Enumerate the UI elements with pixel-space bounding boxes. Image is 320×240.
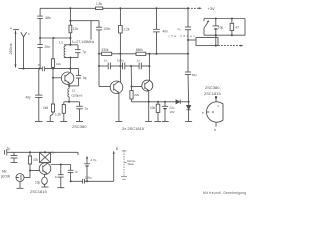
switch S1 — [204, 19, 209, 36]
node — [22, 68, 24, 70]
node — [155, 53, 157, 55]
svg-text:20n: 20n — [45, 45, 51, 49]
capacitor C10 1n — [137, 59, 142, 70]
resistor R7 680k — [136, 48, 146, 55]
node — [86, 180, 88, 182]
svg-text:5p: 5p — [83, 76, 87, 80]
svg-text:60n: 60n — [192, 73, 197, 77]
diode D1 series — [176, 100, 189, 104]
column 188 — [187, 8, 189, 27]
ground — [17, 187, 24, 189]
wire mic ground — [19, 182, 21, 189]
node — [215, 34, 217, 36]
svg-text:68n: 68n — [46, 16, 52, 20]
microphone M1 — [1, 170, 24, 182]
resistor R11 47 — [230, 19, 239, 36]
svg-text:15: 15 — [38, 63, 42, 67]
wire — [38, 98, 40, 122]
wire — [187, 75, 190, 102]
svg-text:10µ: 10µ — [35, 181, 41, 185]
capacitor C16 1u — [7, 147, 18, 163]
wire Q3 emitter — [148, 91, 150, 122]
capacitor C7 100n (osc supply) — [96, 21, 111, 32]
svg-text:1n: 1n — [104, 59, 108, 63]
wire — [146, 53, 188, 55]
capacitor 15p series — [38, 63, 45, 71]
node — [52, 68, 54, 70]
node — [44, 151, 46, 153]
resistor R8 2,2k — [119, 8, 130, 82]
capacitor C12 Ta — [169, 27, 195, 38]
capacitor C18 1n to ground — [55, 165, 64, 188]
node — [148, 101, 150, 103]
wire dashed output — [218, 45, 244, 47]
wire Q1 base — [53, 77, 62, 79]
wire to point B — [113, 147, 118, 182]
capacitor C15 10u — [213, 19, 224, 36]
wire lower — [38, 69, 40, 96]
resistor R2 12k (col53 upper) — [51, 38, 61, 67]
node — [68, 101, 70, 103]
svg-text:100n: 100n — [103, 27, 110, 31]
svg-text:Mit freundl. Genehmigung: Mit freundl. Genehmigung — [203, 191, 246, 195]
node — [70, 180, 72, 182]
wire — [112, 53, 136, 55]
svg-text:40n: 40n — [163, 29, 169, 33]
wire output row — [71, 180, 83, 182]
node — [69, 7, 71, 9]
wire mid row y38 — [40, 37, 70, 39]
transistor Q2 2SC1815 — [110, 81, 123, 94]
resistor R12 47k — [28, 152, 38, 177]
diode D2 shunt — [186, 102, 190, 122]
row 54 — [99, 53, 102, 55]
resistor R4 12k (oscillator feed) — [69, 8, 78, 33]
svg-text:c: c — [218, 104, 220, 108]
svg-text:680k: 680k — [136, 48, 143, 52]
capacitor C14 40n — [153, 8, 168, 54]
node — [119, 7, 121, 9]
node — [187, 7, 189, 9]
svg-text:L1: L1 — [59, 41, 63, 45]
wire emitter row — [64, 101, 80, 103]
svg-text:2SC380: 2SC380 — [72, 124, 87, 129]
svg-text:330k: 330k — [102, 48, 109, 52]
wire Q2 base — [99, 86, 110, 88]
ground — [42, 186, 49, 188]
capacitor C20 series — [83, 175, 92, 183]
svg-text:L2: L2 — [72, 89, 76, 93]
capacitor C4 7p tank — [75, 45, 86, 58]
svg-text:Taste: Taste — [127, 162, 134, 166]
mic rail — [9, 151, 78, 153]
node — [164, 101, 166, 103]
wire — [110, 65, 122, 67]
ground — [154, 121, 161, 123]
svg-text:22k: 22k — [134, 93, 139, 97]
stub — [90, 21, 92, 40]
svg-text:2SC1815: 2SC1815 — [30, 189, 47, 194]
ground — [76, 121, 83, 123]
svg-text:1n: 1n — [55, 175, 59, 179]
wire — [39, 19, 41, 45]
capacitor C3 40p — [26, 95, 43, 99]
wire — [125, 65, 139, 67]
svg-text:b: b — [28, 32, 30, 36]
wire antenna row — [19, 68, 43, 70]
node — [39, 37, 41, 39]
node — [148, 65, 150, 67]
wire Q2 emitter — [118, 93, 120, 122]
wire hook — [50, 112, 53, 122]
wire — [52, 67, 54, 104]
svg-text:C₂: C₂ — [178, 27, 182, 31]
wire — [84, 180, 113, 182]
node — [29, 169, 31, 171]
transistor Q4 2SC1815 — [39, 163, 51, 175]
svg-text:+3V: +3V — [208, 6, 216, 11]
wire column 99 — [98, 30, 100, 87]
svg-text:4,7µ: 4,7µ — [91, 158, 97, 162]
node — [231, 17, 233, 19]
left column — [39, 8, 41, 16]
capacitor C2 20n — [37, 45, 50, 49]
node — [38, 68, 40, 70]
earphone — [188, 35, 218, 46]
battery right side — [244, 19, 246, 36]
node — [119, 65, 121, 67]
node — [187, 39, 189, 41]
node — [52, 77, 54, 79]
node — [60, 163, 62, 165]
node — [53, 37, 55, 39]
node — [130, 65, 132, 67]
svg-text:fₒ=27,145MHz: fₒ=27,145MHz — [72, 40, 94, 44]
svg-text:1,5k: 1,5k — [96, 2, 102, 6]
wire — [187, 30, 189, 72]
ground — [47, 121, 54, 123]
capacitor C1 68n — [37, 16, 51, 20]
wire emitter — [68, 84, 70, 89]
node — [148, 53, 150, 55]
transistor pinout 2SC380 / 2SC1815 — [202, 85, 223, 132]
wire Q4 base — [30, 170, 40, 172]
ground — [57, 187, 64, 189]
top supply rail right part — [103, 7, 188, 9]
svg-text:1,2k: 1,2k — [55, 112, 61, 116]
capacitor C19 1u coupling — [68, 165, 78, 182]
row 66 — [99, 65, 108, 67]
transistor Q1 2SC380 — [61, 72, 73, 84]
resistor R3 1k5 (col53 lower) — [43, 104, 55, 112]
node — [98, 65, 100, 67]
node — [29, 151, 31, 153]
svg-text:22µ: 22µ — [169, 105, 174, 109]
battery stub — [5, 149, 10, 156]
svg-text:2SC380,: 2SC380, — [205, 85, 221, 90]
resistor R10 10k — [150, 102, 160, 122]
svg-text:(ECM): (ECM) — [1, 175, 10, 179]
ground — [162, 121, 169, 123]
svg-text:12k: 12k — [73, 27, 79, 31]
battery rail top — [204, 18, 245, 20]
inductor L2 choke — [68, 89, 83, 102]
svg-text:a: a — [10, 26, 12, 30]
inductor L1 — [59, 41, 78, 58]
node — [69, 37, 71, 39]
capacitor C5 5p feedback — [69, 69, 87, 86]
capacitor C6 7n — [76, 102, 88, 122]
node — [157, 101, 159, 103]
capacitor C11 22u electrolytic — [162, 102, 175, 122]
wire — [141, 65, 149, 67]
svg-text:7n: 7n — [85, 107, 89, 111]
electrolytic C17 10u — [35, 174, 47, 187]
node — [231, 34, 233, 36]
wire collector row — [51, 164, 71, 166]
svg-text:1µ: 1µ — [7, 147, 11, 151]
node — [188, 101, 190, 103]
antenna b — [21, 32, 31, 69]
node emitter — [68, 85, 70, 87]
ground — [145, 121, 152, 123]
svg-text:2x 2SC1815: 2x 2SC1815 — [122, 126, 145, 131]
svg-text:100µ: 100µ — [85, 175, 92, 179]
node — [119, 53, 121, 55]
resistor R1 1,5k series on rail — [96, 2, 103, 9]
trimmer T1 — [40, 151, 55, 163]
svg-text:b: b — [214, 128, 216, 132]
resistor R6 330k — [102, 48, 112, 55]
svg-text:47: 47 — [235, 26, 239, 30]
wire — [45, 68, 71, 70]
node — [69, 20, 71, 22]
dimension arrow 260cm — [9, 31, 17, 68]
wire Q3 base — [132, 86, 143, 88]
svg-text:e: e — [202, 111, 204, 115]
+3V arrow — [188, 6, 215, 11]
wire collector column — [69, 58, 71, 73]
ground — [185, 121, 192, 123]
wire — [69, 33, 71, 45]
capacitor C9 100n — [117, 59, 125, 70]
node — [215, 17, 217, 19]
svg-text:1µ: 1µ — [74, 169, 78, 173]
node tank top — [69, 44, 71, 46]
resistor R5 1,2k — [55, 102, 65, 122]
svg-text:10V: 10V — [169, 110, 174, 114]
wire detector row — [132, 101, 176, 103]
svg-text:(Ta 100µ): (Ta 100µ) — [169, 34, 195, 38]
electrolytic C21 with +3V arrow — [84, 156, 96, 182]
ground — [35, 121, 43, 123]
ground — [60, 121, 67, 123]
svg-text:47k: 47k — [33, 158, 39, 162]
svg-text:1n: 1n — [137, 59, 141, 63]
svg-text:(100µH): (100µH) — [72, 94, 83, 98]
svg-text:2,2k: 2,2k — [124, 28, 130, 32]
wire Q3 collector — [148, 54, 150, 81]
capacitor C8 1n — [104, 59, 110, 70]
wire mic out — [24, 177, 30, 179]
rail end tick — [77, 152, 79, 155]
svg-text:10µ: 10µ — [218, 26, 224, 30]
node — [98, 53, 100, 55]
svg-text:12k: 12k — [56, 62, 61, 66]
svg-text:1k5: 1k5 — [43, 106, 48, 110]
battery rail bottom — [204, 34, 245, 36]
node tank bottom — [69, 57, 71, 59]
svg-text:260cm: 260cm — [9, 43, 13, 54]
svg-text:B: B — [116, 147, 118, 151]
top supply rail — [40, 7, 96, 9]
capacitor C13 60n — [185, 72, 197, 77]
antenna a dimension tick — [10, 26, 19, 30]
ground — [11, 162, 18, 164]
ground — [115, 121, 122, 123]
svg-text:10k: 10k — [150, 106, 156, 110]
svg-text:40p: 40p — [26, 95, 32, 99]
morse key column — [121, 151, 136, 180]
wire — [39, 47, 41, 68]
node — [155, 7, 157, 9]
svg-text:2SC1815: 2SC1815 — [204, 91, 221, 96]
svg-text:Mic: Mic — [2, 170, 7, 174]
resistor R9 22k — [130, 66, 140, 102]
wire y20.7 to cap100n — [70, 20, 99, 22]
svg-text:T₁: T₁ — [52, 151, 55, 155]
transistor Q3 2SC1815 — [142, 80, 153, 91]
node — [187, 53, 189, 55]
svg-text:7p: 7p — [82, 50, 86, 54]
node — [69, 68, 71, 70]
